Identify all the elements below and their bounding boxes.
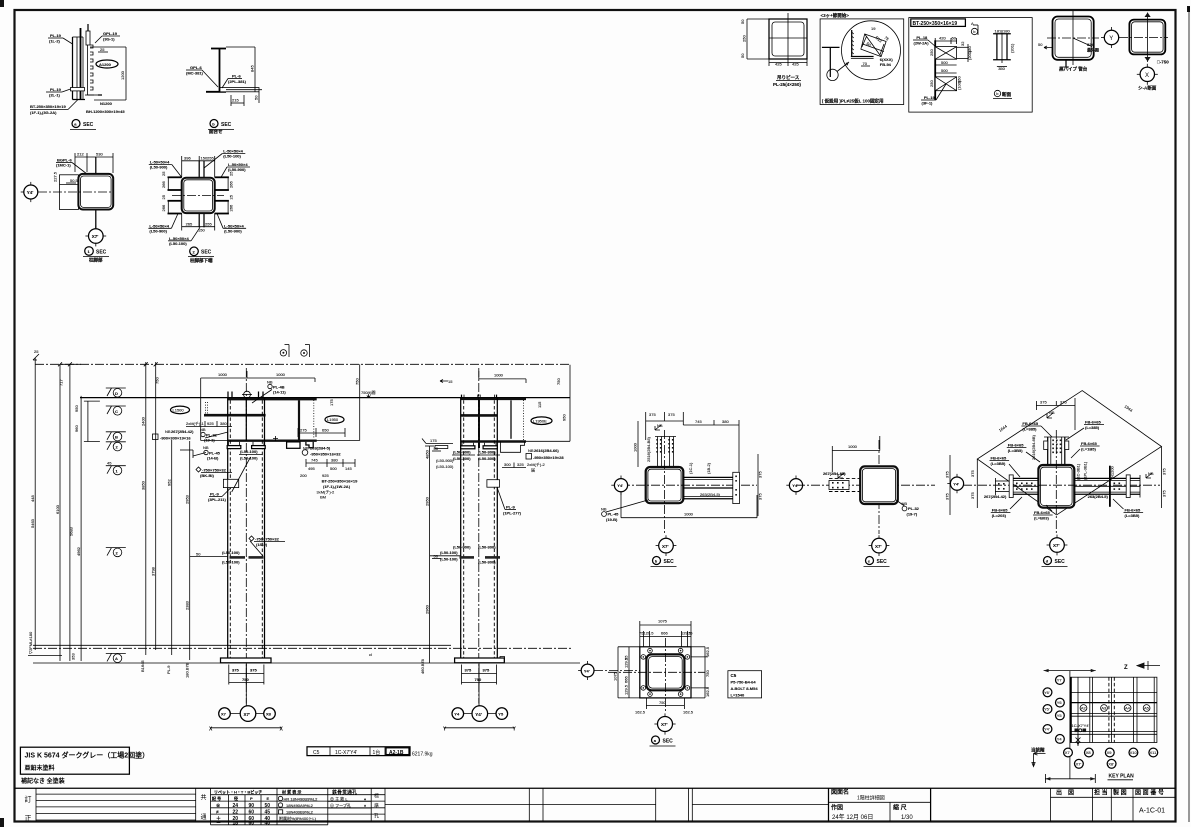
oval labels bbox=[171, 406, 190, 414]
left dims bbox=[617, 647, 619, 698]
svg-text:(L=3B5): (L=3B5) bbox=[1008, 448, 1023, 453]
svg-text:1000: 1000 bbox=[633, 442, 638, 452]
web bbox=[219, 49, 221, 93]
svg-text:375: 375 bbox=[232, 668, 239, 673]
svg-text:300: 300 bbox=[504, 462, 511, 467]
svg-text:SEC: SEC bbox=[664, 559, 675, 565]
svg-text:BT-250×350×16×19: BT-250×350×16×19 bbox=[322, 479, 358, 484]
svg-text:リベット・H・T・Bピッチ: リベット・H・T・Bピッチ bbox=[214, 788, 262, 794]
svg-text:材 質 表 示: 材 質 表 示 bbox=[281, 788, 301, 794]
svg-text:E: E bbox=[267, 796, 270, 801]
svg-text:黒パイプ 管台: 黒パイプ 管台 bbox=[1059, 66, 1088, 73]
svg-text:(L=203): (L=203) bbox=[992, 513, 1007, 518]
svg-text:60: 60 bbox=[249, 809, 255, 815]
svg-text:180.B7B: 180.B7B bbox=[185, 662, 190, 678]
top flange bbox=[228, 398, 317, 400]
svg-text:(L50-900): (L50-900) bbox=[453, 450, 471, 455]
svg-text:4962: 4962 bbox=[76, 546, 81, 556]
svg-text:柱脚部: 柱脚部 bbox=[89, 257, 103, 264]
svg-text:750: 750 bbox=[475, 677, 482, 682]
svg-text:22t: 22t bbox=[1087, 42, 1093, 47]
flag D bbox=[106, 388, 126, 397]
svg-text:162.5: 162.5 bbox=[705, 646, 710, 657]
svg-text:PL-32: PL-32 bbox=[908, 506, 920, 511]
svg-text:50: 50 bbox=[740, 53, 745, 58]
svg-text:SEC: SEC bbox=[96, 250, 107, 256]
svg-text:145: 145 bbox=[345, 466, 352, 471]
arrow mark bbox=[440, 380, 448, 383]
svg-text:(19-7): (19-7) bbox=[907, 512, 918, 517]
Y4' bubble bbox=[581, 664, 594, 677]
svg-text:Y4': Y4' bbox=[792, 483, 798, 488]
svg-text:－: － bbox=[216, 820, 221, 826]
svg-text:375: 375 bbox=[465, 668, 472, 673]
svg-text:(2W-2A): (2W-2A) bbox=[914, 41, 930, 46]
svg-text:375: 375 bbox=[758, 493, 763, 500]
svg-text:495: 495 bbox=[308, 466, 315, 471]
svg-text:925: 925 bbox=[322, 473, 329, 478]
svg-text:162.5: 162.5 bbox=[705, 686, 710, 697]
diamond outline bbox=[977, 391, 1161, 515]
svg-text:柱脚部下端: 柱脚部下端 bbox=[190, 257, 213, 264]
175 tick left of right beam bbox=[426, 443, 453, 445]
svg-text:960: 960 bbox=[74, 425, 79, 432]
svg-text:325: 325 bbox=[517, 462, 524, 467]
center lines bbox=[796, 484, 935, 486]
svg-text:(1C-3B1): (1C-3B1) bbox=[1076, 463, 1081, 480]
svg-text:745: 745 bbox=[695, 419, 702, 424]
svg-text:PL-45: PL-45 bbox=[608, 512, 620, 517]
svg-text:(19-B): (19-B) bbox=[606, 517, 618, 522]
base plate bbox=[221, 658, 272, 663]
column square bbox=[1038, 465, 1074, 508]
A bubbles bbox=[1080, 705, 1087, 712]
svg-text:SEC: SEC bbox=[201, 250, 212, 256]
svg-text:(1F-1),(1W-2A): (1F-1),(1W-2A) bbox=[323, 484, 351, 489]
svg-text:PL-19: PL-19 bbox=[50, 87, 62, 92]
svg-text:1000: 1000 bbox=[848, 444, 858, 449]
bottom dim 1000 bbox=[621, 517, 757, 519]
svg-text:500: 500 bbox=[330, 466, 337, 471]
svg-text:50.5: 50.5 bbox=[70, 178, 79, 183]
svg-text:129.5: 129.5 bbox=[644, 631, 655, 636]
svg-text:訂: 訂 bbox=[25, 795, 32, 804]
beam flanges from above bbox=[657, 437, 659, 468]
svg-text:263(2B4-5): 263(2B4-5) bbox=[1088, 494, 1109, 499]
svg-text:X8': X8' bbox=[1108, 761, 1114, 766]
section mark 2 bbox=[190, 247, 199, 256]
svg-text:375: 375 bbox=[250, 668, 257, 673]
svg-text:≠: ≠ bbox=[216, 809, 219, 815]
svg-text:X7': X7' bbox=[92, 234, 99, 239]
top dims 375 375 bbox=[646, 420, 684, 422]
svg-text:X7': X7' bbox=[1053, 543, 1060, 548]
svg-text:18N400B9%L2: 18N400B9%L2 bbox=[286, 809, 314, 814]
svg-text:(L50-100): (L50-100) bbox=[436, 464, 454, 469]
svg-text:(1F-1),(3G-2A): (1F-1),(3G-2A) bbox=[30, 110, 57, 115]
svg-text:NB: NB bbox=[267, 380, 273, 385]
svg-text:175: 175 bbox=[329, 399, 334, 406]
svg-text:JIS K 5674 ダークグレー（工場2回塗）: JIS K 5674 ダークグレー（工場2回塗） bbox=[25, 751, 150, 760]
svg-text:267(2B4-42): 267(2B4-42) bbox=[171, 429, 194, 434]
svg-text:BT-250×350×19×19: BT-250×350×19×19 bbox=[30, 104, 66, 109]
leader diagonals bbox=[1041, 426, 1052, 437]
dim 25 bbox=[98, 51, 108, 53]
svg-text:FB-6×65: FB-6×65 bbox=[1125, 508, 1141, 513]
svg-text:24: 24 bbox=[233, 803, 239, 809]
svg-text:記 号: 記 号 bbox=[212, 795, 221, 801]
svg-text:X10: X10 bbox=[1130, 750, 1138, 755]
svg-text:750: 750 bbox=[556, 378, 561, 385]
left beam bbox=[1013, 477, 1038, 479]
svg-text:X7': X7' bbox=[662, 544, 669, 549]
svg-text:Y6': Y6' bbox=[1044, 690, 1050, 695]
title block top border bbox=[15, 787, 1176, 789]
weld mark right bbox=[1146, 473, 1152, 478]
svg-text:(MC-381): (MC-381) bbox=[186, 71, 204, 76]
svg-text:2953: 2953 bbox=[185, 494, 190, 504]
svg-text:75: 75 bbox=[688, 631, 693, 636]
svg-text:2383: 2383 bbox=[185, 600, 190, 610]
svg-text:FB-6×65: FB-6×65 bbox=[1022, 421, 1038, 426]
svg-text:♦: ♦ bbox=[364, 803, 366, 808]
svg-text:共: 共 bbox=[201, 794, 207, 802]
flanges bbox=[461, 398, 526, 400]
svg-text:X8: X8 bbox=[266, 712, 272, 717]
level step ticks bbox=[84, 400, 100, 402]
grid rect bbox=[1070, 677, 1157, 742]
left vertical dim line L2 bbox=[59, 364, 61, 661]
svg-text:263(2B4-5): 263(2B4-5) bbox=[310, 446, 331, 451]
Y4' bubble bbox=[950, 477, 963, 490]
base plate bbox=[455, 658, 505, 663]
top gusset plate bbox=[198, 161, 200, 178]
svg-text:L1500: L1500 bbox=[173, 408, 185, 413]
svg-text:15: 15 bbox=[448, 379, 453, 384]
bolt dots bbox=[656, 439, 673, 453]
top bolt stub bbox=[86, 31, 90, 45]
section mark 1 bbox=[85, 247, 94, 256]
svg-text:25: 25 bbox=[100, 47, 105, 52]
right beam bbox=[1074, 477, 1140, 479]
left angles bbox=[168, 176, 182, 178]
C5 info box bbox=[728, 671, 762, 698]
svg-text:Y4': Y4' bbox=[617, 483, 623, 488]
svg-text:鉄骨贯通孔: 鉄骨贯通孔 bbox=[332, 789, 357, 796]
svg-text:(L50-300): (L50-300) bbox=[478, 456, 496, 461]
svg-text:350: 350 bbox=[998, 66, 1005, 71]
svg-text:NB: NB bbox=[1049, 410, 1055, 415]
dim top bbox=[182, 160, 215, 162]
svg-text:175: 175 bbox=[430, 438, 437, 443]
svg-text:90: 90 bbox=[249, 803, 255, 809]
level D heavy line bbox=[80, 397, 570, 399]
stiffener bbox=[298, 400, 300, 439]
leader PL-4B bbox=[268, 384, 272, 388]
svg-text:GPL-6: GPL-6 bbox=[190, 65, 203, 70]
svg-text:準: 準 bbox=[374, 803, 379, 810]
stiffener bbox=[510, 400, 512, 439]
svg-text:A.BOLT 8-M54: A.BOLT 8-M54 bbox=[731, 686, 759, 691]
svg-text:当該階: 当該階 bbox=[1031, 747, 1045, 754]
svg-text:50: 50 bbox=[740, 19, 745, 24]
svg-text:亜鉛末塗料: 亜鉛末塗料 bbox=[25, 764, 55, 772]
page edge line right bbox=[1188, 7, 1190, 822]
svg-text:50: 50 bbox=[434, 446, 439, 451]
svg-text:NB: NB bbox=[601, 507, 607, 512]
small plate mid-height bbox=[487, 480, 500, 488]
beam to right bbox=[683, 476, 733, 478]
svg-text:19: 19 bbox=[871, 26, 876, 31]
svg-text:L1950: L1950 bbox=[327, 417, 339, 422]
svg-text:1200: 1200 bbox=[120, 70, 125, 80]
svg-text:縮 尺: 縮 尺 bbox=[893, 804, 907, 812]
svg-text:212: 212 bbox=[77, 152, 84, 157]
svg-text:162.5: 162.5 bbox=[683, 710, 694, 715]
svg-text:925: 925 bbox=[207, 421, 214, 426]
svg-text:60: 60 bbox=[249, 820, 255, 826]
svg-text:KEY PLAN: KEY PLAN bbox=[1109, 774, 1135, 780]
svg-text:-900×300×19×16: -900×300×19×16 bbox=[160, 436, 191, 441]
svg-text:(L50-100): (L50-100) bbox=[223, 154, 241, 159]
column square bbox=[182, 178, 215, 213]
svg-text:(2L-1): (2L-1) bbox=[49, 93, 61, 98]
svg-text:A2: A2 bbox=[1081, 705, 1087, 710]
PL-32 leader right bbox=[902, 506, 907, 511]
mid splice plate PL-19 bbox=[71, 88, 85, 91]
svg-text:A3: A3 bbox=[1101, 705, 1107, 710]
svg-text:届: 届 bbox=[531, 468, 535, 473]
svg-text:HR 18N490B9%L2: HR 18N490B9%L2 bbox=[284, 796, 319, 801]
svg-text:375: 375 bbox=[668, 412, 675, 417]
svg-text:263(2B4-5): 263(2B4-5) bbox=[700, 492, 721, 497]
svg-text:750(t)間: 750(t)間 bbox=[361, 389, 375, 395]
svg-text:X: X bbox=[1145, 73, 1149, 79]
tick marks on top dim bbox=[58, 362, 158, 366]
svg-text:162.5: 162.5 bbox=[635, 710, 646, 715]
svg-text:Y5: Y5 bbox=[498, 712, 504, 717]
svg-text:図面名: 図面名 bbox=[831, 788, 849, 796]
bolt strip left bbox=[829, 477, 860, 479]
svg-text:750: 750 bbox=[354, 378, 359, 385]
svg-text:正: 正 bbox=[25, 815, 32, 823]
svg-text:70: 70 bbox=[863, 61, 868, 66]
svg-text:266: 266 bbox=[161, 181, 166, 188]
dim line mid L9 bbox=[429, 446, 431, 663]
svg-text:□-750: □-750 bbox=[1157, 60, 1169, 65]
svg-text:115: 115 bbox=[537, 401, 542, 408]
svg-text:NB: NB bbox=[657, 423, 663, 428]
weld mark bbox=[1047, 413, 1053, 418]
svg-text:460.B78: 460.B78 bbox=[420, 658, 425, 674]
weld mark bbox=[655, 425, 661, 430]
svg-text:2400: 2400 bbox=[141, 416, 146, 426]
inner column bbox=[646, 654, 684, 690]
svg-text:(100): (100) bbox=[957, 80, 962, 90]
svg-text:SEC: SEC bbox=[221, 122, 232, 128]
svg-text:Y4: Y4 bbox=[1057, 737, 1063, 742]
center lines bbox=[664, 430, 666, 534]
svg-text:227.5: 227.5 bbox=[53, 171, 58, 182]
serrated shear plate bbox=[88, 45, 95, 95]
svg-text:(L50-100): (L50-100) bbox=[440, 550, 458, 555]
svg-text:530: 530 bbox=[96, 152, 103, 157]
dim 1000 1000 bbox=[201, 377, 315, 379]
svg-text:Y5': Y5' bbox=[1044, 707, 1050, 712]
svg-text:径: 径 bbox=[234, 795, 238, 801]
25 slope mark top-left bbox=[33, 354, 39, 360]
PL-45 leader bottom left bbox=[602, 512, 607, 517]
svg-text:3850: 3850 bbox=[141, 480, 146, 490]
svg-text:396: 396 bbox=[184, 155, 191, 160]
svg-text:図 面 番 号: 図 面 番 号 bbox=[1135, 789, 1164, 797]
bottom gusset plate bbox=[198, 213, 200, 227]
svg-text:265: 265 bbox=[186, 221, 193, 226]
step bracket below bbox=[501, 441, 525, 452]
svg-text:22: 22 bbox=[233, 809, 239, 815]
splice plates below beam bbox=[227, 446, 241, 449]
svg-text:50: 50 bbox=[265, 803, 271, 809]
svg-text:425: 425 bbox=[792, 62, 799, 67]
flag 2a bbox=[106, 442, 126, 451]
svg-text:375: 375 bbox=[970, 470, 975, 477]
svg-text:(L50-900): (L50-900) bbox=[150, 165, 168, 170]
svg-text:(1PL-3B1): (1PL-3B1) bbox=[1083, 461, 1088, 480]
svg-text:-750×750×32: -750×750×32 bbox=[202, 468, 227, 473]
svg-text:(L50-100): (L50-100) bbox=[222, 550, 240, 555]
svg-text:面合せ: 面合せ bbox=[209, 128, 223, 135]
Y4' bubble bbox=[614, 479, 627, 492]
column square bbox=[78, 174, 113, 210]
svg-text:附属材%(8%400トL): 附属材%(8%400トL) bbox=[279, 815, 317, 821]
svg-text:666: 666 bbox=[624, 676, 629, 683]
svg-text:PL-9: PL-9 bbox=[166, 665, 171, 674]
svg-text:45: 45 bbox=[107, 461, 112, 466]
svg-text:(L50-300): (L50-300) bbox=[453, 456, 471, 461]
svg-text:375: 375 bbox=[945, 493, 950, 500]
svg-text:5463: 5463 bbox=[30, 518, 35, 528]
svg-text:(L50-900): (L50-900) bbox=[436, 458, 454, 463]
svg-text:A2-1B: A2-1B bbox=[389, 750, 404, 756]
svg-text:1C-X7'Y4': 1C-X7'Y4' bbox=[1072, 723, 1090, 728]
svg-text:A1200: A1200 bbox=[99, 62, 112, 67]
bottom dims bbox=[646, 705, 684, 707]
svg-text:750: 750 bbox=[705, 670, 710, 677]
dim 215 under bbox=[230, 95, 232, 106]
svg-text:(3G-1): (3G-1) bbox=[103, 37, 115, 42]
bolts bbox=[641, 648, 690, 696]
svg-text:(L=1B5): (L=1B5) bbox=[1081, 447, 1096, 452]
svg-text:SEC: SEC bbox=[83, 122, 94, 128]
left vertical dim line L1 bbox=[34, 358, 36, 650]
svg-text:275: 275 bbox=[300, 428, 307, 433]
svg-text:1075: 1075 bbox=[658, 619, 668, 624]
svg-text:FB-6×65: FB-6×65 bbox=[1008, 443, 1024, 448]
svg-text:(L50-900): (L50-900) bbox=[228, 167, 246, 172]
left vertical dim line L3 bbox=[69, 364, 71, 661]
svg-text:Y6: Y6 bbox=[1057, 700, 1063, 705]
svg-text:cl: cl bbox=[369, 652, 372, 657]
svg-text:25: 25 bbox=[161, 194, 166, 199]
X7' bubble bbox=[872, 538, 887, 553]
svg-text:SEC: SEC bbox=[1055, 559, 1066, 565]
svg-text:(1S-9): (1S-9) bbox=[256, 542, 268, 547]
Y4' bubble bbox=[789, 479, 802, 492]
svg-text:Y4': Y4' bbox=[1044, 727, 1050, 732]
svg-text:375: 375 bbox=[945, 471, 950, 478]
svg-text:250: 250 bbox=[929, 49, 934, 56]
svg-text:750: 750 bbox=[242, 677, 249, 682]
svg-text:X7: X7 bbox=[221, 712, 227, 717]
svg-text:745: 745 bbox=[311, 458, 318, 463]
svg-text:375: 375 bbox=[758, 471, 763, 478]
svg-text:1/30: 1/30 bbox=[901, 815, 913, 821]
center mark bbox=[244, 391, 251, 398]
svg-text:255: 255 bbox=[207, 155, 214, 160]
diamond plate label bbox=[196, 467, 201, 472]
svg-text:(1L-2): (1L-2) bbox=[49, 39, 61, 44]
svg-text:255: 255 bbox=[205, 221, 212, 226]
svg-text:2616(2B4-66): 2616(2B4-66) bbox=[534, 448, 559, 453]
hidden dotted bbox=[522, 400, 524, 441]
svg-text:(L=B03): (L=B03) bbox=[1034, 516, 1049, 521]
internal horizontals bbox=[1070, 693, 1157, 735]
mid flange left bbox=[204, 414, 266, 417]
svg-text:(L50-100): (L50-100) bbox=[222, 560, 240, 565]
svg-text:50: 50 bbox=[1038, 42, 1043, 47]
svg-text:B: B bbox=[115, 435, 118, 440]
svg-text:(14-B): (14-B) bbox=[207, 456, 219, 461]
svg-text:(L=3B5): (L=3B5) bbox=[1125, 513, 1140, 518]
svg-text:18N490A9%L2: 18N490A9%L2 bbox=[286, 803, 314, 808]
svg-text:(L50-900): (L50-900) bbox=[224, 228, 242, 233]
svg-text:32: 32 bbox=[960, 41, 965, 46]
svg-text:PL-18: PL-18 bbox=[916, 35, 928, 40]
svg-text:X7: X7 bbox=[1065, 750, 1071, 755]
svg-text:129.5: 129.5 bbox=[624, 657, 629, 668]
svg-text:標: 標 bbox=[374, 793, 379, 800]
svg-text:C5: C5 bbox=[313, 750, 320, 756]
svg-text:Y4': Y4' bbox=[27, 190, 34, 195]
svg-text:( 仮設用 )PL≠25仮L 100固定用: ( 仮設用 )PL≠25仮L 100固定用 bbox=[822, 98, 884, 105]
svg-text:C5: C5 bbox=[731, 673, 737, 678]
bottom flange bbox=[228, 440, 317, 442]
svg-text:3798: 3798 bbox=[151, 566, 156, 576]
svg-text:(2PL-381): (2PL-381) bbox=[228, 79, 247, 84]
svg-text:150: 150 bbox=[198, 228, 205, 233]
section title bbox=[1044, 557, 1052, 565]
svg-text:PL-19: PL-19 bbox=[924, 95, 936, 100]
top beam bbox=[1047, 437, 1049, 465]
svg-text:断面: 断面 bbox=[1002, 91, 1011, 98]
section title bbox=[866, 557, 874, 565]
svg-text:50: 50 bbox=[196, 552, 201, 557]
svg-text:BT-250×350×16×19: BT-250×350×16×19 bbox=[913, 21, 958, 27]
dim line L6 bbox=[155, 362, 157, 650]
svg-text:SEC: SEC bbox=[877, 559, 888, 565]
svg-text:Y7: Y7 bbox=[1057, 678, 1063, 683]
svg-text:666: 666 bbox=[661, 631, 668, 636]
dim line L8 bbox=[189, 441, 191, 660]
svg-text:B1645: B1645 bbox=[140, 660, 145, 672]
mid-height angle splices right column bbox=[430, 555, 461, 557]
svg-text:420: 420 bbox=[939, 36, 946, 41]
gusset vertical bbox=[95, 157, 97, 228]
svg-text:380: 380 bbox=[220, 421, 227, 426]
svg-text:1075: 1075 bbox=[613, 671, 618, 681]
column square bbox=[860, 466, 898, 504]
svg-text:BM: BM bbox=[320, 495, 326, 500]
